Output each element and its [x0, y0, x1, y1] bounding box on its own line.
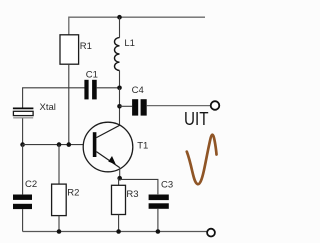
transistor T1	[83, 122, 133, 172]
svg-text:C1: C1	[86, 69, 98, 80]
wire: R2 top lead	[58, 145, 60, 185]
resistor R3	[112, 185, 126, 214]
svg-text:R1: R1	[80, 41, 92, 52]
crystal Xtal	[13, 108, 34, 117]
junction: R1 / base rail	[67, 142, 72, 147]
svg-text:Xtal: Xtal	[40, 102, 56, 113]
junction: R2 / base rail	[57, 142, 62, 147]
wire: R2 bottom lead	[58, 216, 60, 232]
junction: crystal / base rail	[20, 142, 25, 147]
capacitor C4	[132, 99, 147, 115]
wire: top rail down to L1	[119, 17, 121, 37]
junction: R3 / ground rail	[116, 229, 121, 234]
wire: base rail to transistor	[23, 144, 84, 146]
wire: emitter down to node	[119, 168, 121, 179]
svg-text:C3: C3	[161, 179, 173, 190]
wire: base node down to C2	[22, 145, 24, 195]
svg-text:C2: C2	[25, 179, 37, 190]
wire: R3 bottom to ground rail	[118, 215, 120, 232]
wire: C2 bottom to ground rail corner	[22, 209, 24, 231]
junction: C1 / collector rail	[117, 86, 122, 91]
wire: crystal bottom to base node	[22, 118, 24, 144]
wire: node to R3 top	[118, 178, 120, 185]
wire: ground bottom rail	[23, 231, 208, 233]
capacitor C3	[149, 195, 169, 209]
junction: emitter / R3 / C3	[117, 176, 122, 181]
terminal: output (top)	[211, 101, 220, 110]
svg-text:R3: R3	[126, 189, 138, 200]
resistor R2	[52, 184, 67, 216]
terminal: output (bottom, on ground rail)	[207, 229, 215, 237]
wire: emitter node right and down to C3	[120, 179, 158, 194]
resistor R1	[60, 35, 79, 64]
capacitor C2	[13, 195, 32, 210]
junction: C4 tap on collector rail	[117, 104, 122, 109]
wire: C3 bottom to ground rail	[157, 209, 159, 232]
junction: top rail / L1	[117, 15, 122, 20]
wire: C1 right plate to collector rail	[97, 87, 120, 89]
wire: C4 right plate to output terminal	[147, 105, 211, 107]
svg-text:R2: R2	[67, 188, 79, 199]
wire: collector rail down to transistor	[119, 88, 121, 126]
wire: collector node to C4 left plate	[120, 105, 133, 107]
svg-text:L1: L1	[124, 38, 135, 49]
wire: crystal top corner to C1 left plate	[23, 88, 85, 108]
svg-text:UIT: UIT	[184, 109, 209, 129]
inductor L1	[115, 38, 120, 71]
svg-text:C4: C4	[132, 85, 144, 96]
wire: V+ top rail with corner above R1	[69, 17, 205, 35]
svg-text:T1: T1	[137, 141, 148, 152]
junction: R2 / ground rail	[57, 229, 62, 234]
wire: L1 bottom to collector node	[119, 70, 121, 87]
wire: R1 bottom down to base rail	[68, 64, 70, 144]
capacitor C1	[84, 80, 96, 100]
waveform sketch (hand-drawn sine)	[187, 135, 217, 184]
junction: C3 / ground rail	[156, 229, 161, 234]
